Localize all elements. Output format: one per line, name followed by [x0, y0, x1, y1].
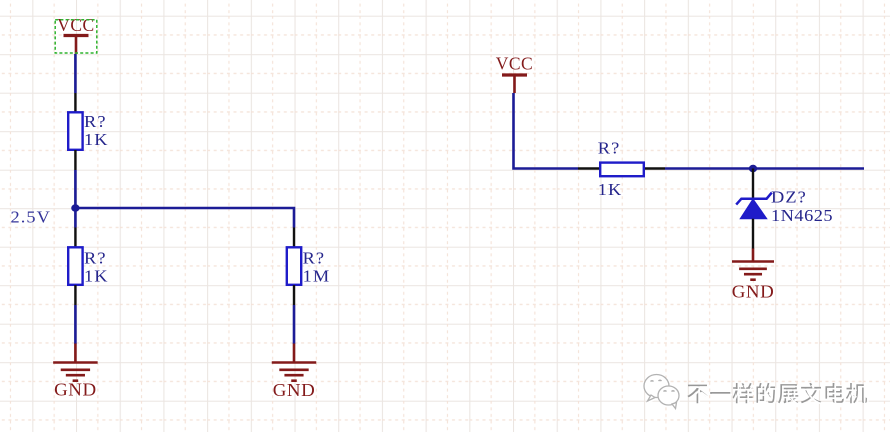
pin 1 of R1 (black lead)	[74, 93, 76, 112]
power symbol GND1: GND bars	[53, 363, 98, 381]
pin 1 of R2 (black lead)	[74, 228, 76, 248]
wire: R4 to right edge through node B	[665, 167, 864, 170]
node B junction dot	[749, 165, 757, 173]
zener diode DZ1: cathode bar with bent ends	[736, 193, 772, 205]
pin 2 of R1 (black lead)	[74, 150, 76, 170]
svg-text:1K: 1K	[84, 266, 109, 285]
svg-text:R?: R?	[598, 138, 621, 157]
power symbol VCC1: VCC stem	[75, 37, 78, 55]
resistor R2 body	[68, 247, 82, 284]
svg-text:R?: R?	[84, 248, 107, 267]
pin 2 of R4 (black lead)	[645, 167, 665, 169]
svg-text:DZ?: DZ?	[771, 187, 807, 206]
wire: node A to R3 branch (horizontal + corner down)	[75, 208, 294, 228]
svg-text:GND: GND	[273, 381, 316, 400]
svg-text:1N4625: 1N4625	[771, 206, 833, 225]
power symbol GND3: GND bars	[732, 262, 774, 280]
zener diode DZ1: anode triangle (filled)	[740, 199, 767, 219]
svg-text:R?: R?	[84, 112, 107, 131]
svg-text:1K: 1K	[598, 180, 623, 199]
wire: VCC2 down and right to R4	[514, 93, 579, 169]
power symbol VCC1: VCC T-bar	[64, 34, 89, 37]
wire: R2 to GND1	[74, 305, 77, 344]
power symbol VCC2: VCC stem	[513, 76, 516, 93]
pin 1 of DZ1 zener (black lead, cathode)	[752, 169, 754, 199]
svg-text:2.5V: 2.5V	[11, 207, 52, 226]
svg-text:GND: GND	[54, 380, 97, 399]
svg-text:1K: 1K	[84, 130, 109, 149]
svg-text:VCC: VCC	[496, 54, 533, 74]
power symbol GND1: GND stem	[74, 344, 77, 363]
power symbol GND2: GND stem	[293, 344, 296, 363]
power symbol VCC2: VCC T-bar	[502, 73, 527, 76]
pin 2 of DZ1 zener (black lead, anode)	[752, 219, 754, 249]
resistor R4 body (horizontal)	[600, 163, 644, 177]
pin 2 of R2 (black lead)	[74, 285, 76, 305]
power symbol GND3: GND stem	[752, 249, 755, 262]
wire: R3 to GND2	[293, 305, 296, 344]
resistor R1 body	[68, 112, 82, 150]
wire: node A to R2 pin	[74, 208, 77, 228]
power symbol GND2: GND bars	[272, 363, 317, 381]
svg-text:1M: 1M	[303, 266, 331, 285]
wire: R1 to node A	[74, 170, 77, 208]
pin 1 of R4 (black lead)	[578, 167, 600, 169]
pin 1 of R3 (black lead)	[293, 228, 295, 248]
node A junction dot	[71, 204, 79, 212]
svg-text:R?: R?	[303, 248, 326, 267]
selection box around VCC1 (green dashed)	[55, 20, 97, 53]
wire: VCC1 to R1 pin	[74, 54, 77, 93]
pin 2 of R3 (black lead)	[293, 285, 295, 305]
svg-text:VCC: VCC	[57, 15, 94, 35]
resistor R3 body	[287, 247, 301, 284]
svg-text:GND: GND	[732, 282, 775, 301]
